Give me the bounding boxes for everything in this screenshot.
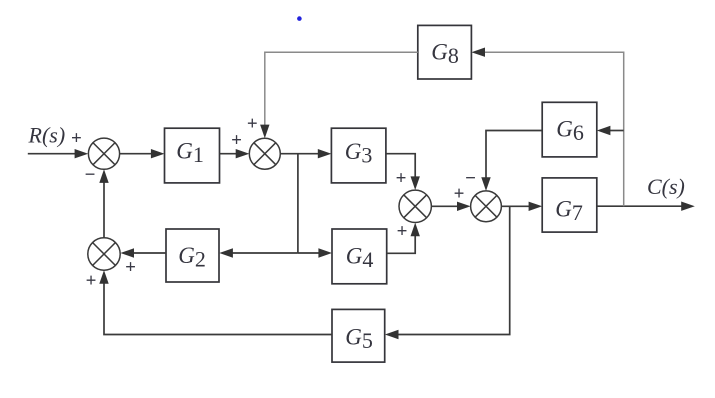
block G3	[331, 128, 386, 183]
wire arrowhead into G7	[529, 202, 543, 211]
summing junction 2	[249, 138, 280, 169]
wire arrowhead into bottom junction	[120, 248, 134, 257]
svg-text:+: +	[125, 257, 136, 278]
block G4	[332, 229, 387, 284]
svg-text:R(s): R(s)	[28, 123, 66, 148]
wire: G1 to junction 2	[220, 153, 238, 155]
wire: branch to G2 (leftwards)	[232, 252, 298, 254]
block G7	[542, 178, 597, 232]
block G6	[542, 102, 597, 157]
wire arrowhead into junction 4	[457, 202, 471, 211]
wire: G3 output right and down to junction 3	[386, 154, 415, 178]
svg-text:+: +	[397, 221, 408, 242]
block G8	[418, 25, 472, 79]
svg-text:+: +	[454, 183, 465, 204]
wire: R(s) input line	[28, 153, 76, 155]
wire: junction 2 to G3 (with branch node)	[280, 153, 319, 155]
wire arrowhead into G8 right edge	[471, 48, 485, 57]
stray blue dot	[297, 16, 302, 21]
wire arrowhead into G4 left edge	[318, 248, 332, 257]
wire: G4 output right and up to junction 3	[387, 235, 416, 254]
svg-text:G2: G2	[178, 243, 206, 272]
wire: G6 output left and down into junction 4	[486, 131, 542, 179]
svg-text:G6: G6	[556, 117, 584, 146]
summing junction 3	[399, 190, 431, 222]
wire arrowhead up into junction 3	[411, 223, 420, 237]
wire arrowhead into G3	[318, 149, 332, 158]
svg-text:G8: G8	[431, 40, 459, 69]
svg-text:G4: G4	[346, 244, 374, 273]
wire arrowhead into G2 right edge	[219, 248, 233, 257]
wire: junction 1 to G1	[120, 153, 153, 155]
wire arrowhead output C(s)	[681, 202, 695, 211]
wire arrowhead up into junction 1	[99, 169, 108, 183]
wire arrowhead down into junction 4	[481, 177, 490, 191]
wire arrowhead into summing junction 1	[75, 149, 89, 158]
block G1	[165, 128, 220, 183]
svg-text:+: +	[396, 168, 407, 189]
block G2	[166, 229, 219, 282]
svg-text:−: −	[465, 168, 476, 189]
block G5	[332, 309, 385, 362]
wire: feedback tap up from output (gray)	[485, 52, 624, 206]
wire: branch to G4 (rightwards)	[298, 252, 320, 254]
svg-text:C(s): C(s)	[647, 174, 685, 199]
wire arrowhead into junction 2	[236, 149, 250, 158]
svg-text:G7: G7	[555, 197, 583, 226]
summing junction 1	[88, 138, 119, 169]
wire arrowhead into G5 right edge	[385, 330, 399, 339]
wire: branch node down from junction-2 output	[297, 154, 299, 253]
wire: G8 output left then down into junction 2 (gray)	[265, 52, 418, 126]
svg-text:G3: G3	[345, 139, 373, 168]
summing junction 5 (bottom left)	[88, 238, 120, 270]
wire: junction 4 to G7 (with branch at x=509.7)	[501, 205, 530, 207]
wire: tap to G6 right edge	[610, 130, 624, 132]
svg-text:+: +	[71, 128, 82, 149]
wire: bottom junction up to junction 1	[103, 181, 105, 238]
wire: G5 output left then up into bottom junction	[104, 283, 332, 335]
svg-text:−: −	[85, 165, 96, 186]
wire arrowhead into G1	[151, 149, 165, 158]
wire arrowhead down into junction 2	[260, 125, 269, 139]
wire arrowhead up into bottom junction	[99, 270, 108, 284]
svg-text:+: +	[86, 270, 97, 291]
svg-text:+: +	[247, 114, 258, 135]
wire arrowhead down into junction 3	[411, 176, 420, 190]
wire arrowhead into G6 right edge	[597, 126, 611, 135]
summing junction 4	[471, 191, 502, 222]
wire: G2 output to bottom junction	[133, 252, 166, 254]
wire: branch down from junction4 output to G5 feedback	[398, 206, 510, 334]
svg-text:G5: G5	[345, 325, 373, 354]
wire: G7 output line to C(s)	[597, 205, 683, 207]
svg-text:G1: G1	[176, 139, 204, 168]
wire: junction 3 to junction 4	[431, 205, 458, 207]
svg-text:+: +	[231, 130, 242, 151]
